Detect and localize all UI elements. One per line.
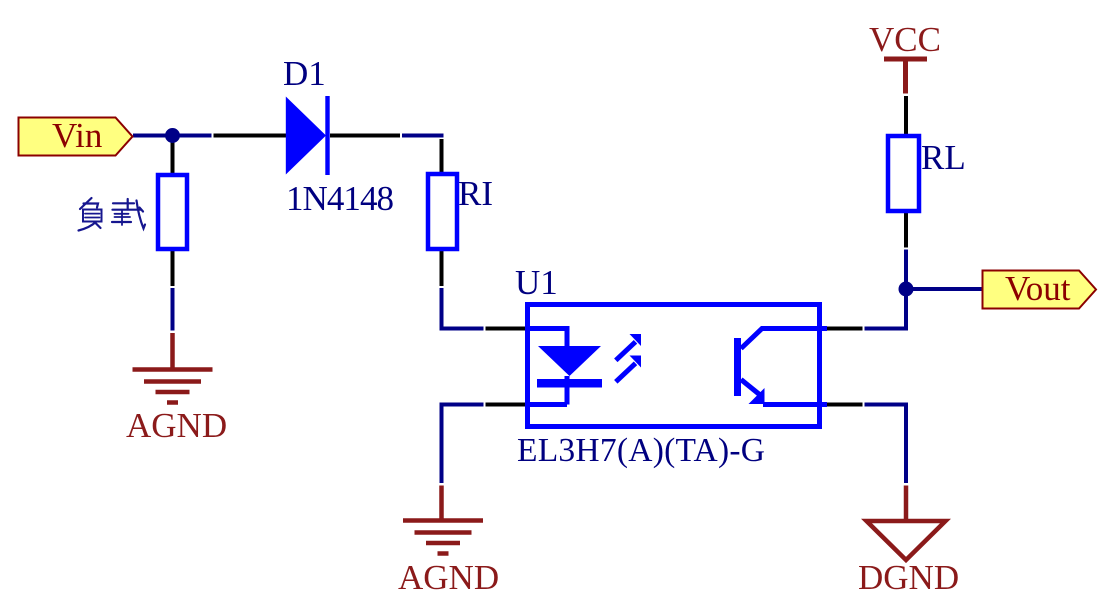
svg-text:EL3H7(A)(TA)-G: EL3H7(A)(TA)-G bbox=[517, 432, 765, 469]
svg-text:1N4148: 1N4148 bbox=[286, 179, 394, 218]
svg-text:DGND: DGND bbox=[858, 558, 959, 597]
svg-text:RL: RL bbox=[921, 138, 966, 177]
svg-text:AGND: AGND bbox=[126, 406, 227, 445]
svg-text:D1: D1 bbox=[283, 54, 326, 93]
svg-text:AGND: AGND bbox=[398, 558, 499, 597]
svg-text:RI: RI bbox=[458, 174, 493, 213]
svg-text:Vout: Vout bbox=[1005, 269, 1071, 308]
svg-text:VCC: VCC bbox=[869, 20, 941, 59]
svg-text:Vin: Vin bbox=[52, 116, 102, 155]
svg-text:U1: U1 bbox=[515, 263, 558, 302]
